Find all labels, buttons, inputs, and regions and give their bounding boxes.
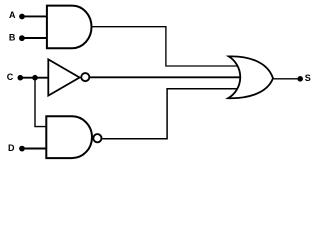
node C terminal dot (18, 75, 24, 81)
wire C branch down to NAND input (35, 78, 46, 127)
wire NOT output to OR middle input (90, 76, 242, 78)
wire A input (22, 15, 47, 17)
node C junction dot (32, 75, 38, 81)
wire C input (20, 77, 48, 79)
NOT gate (inverter) U2 (48, 59, 79, 95)
NOT gate bubble (81, 73, 89, 81)
node B terminal dot (19, 35, 25, 41)
wire NAND output to OR bottom input (102, 89, 239, 139)
node A terminal dot (19, 14, 25, 20)
svg-text:A: A (9, 10, 16, 20)
node D terminal dot (19, 146, 25, 152)
OR gate U4 (228, 56, 273, 98)
wire B input (22, 37, 47, 39)
wire D input (22, 148, 46, 150)
NAND gate bubble (93, 134, 101, 142)
svg-text:B: B (9, 32, 16, 42)
node S terminal dot (297, 76, 303, 82)
AND gate U1 (47, 6, 92, 49)
NAND gate U3 (46, 116, 92, 158)
wire AND output to OR top input (91, 27, 240, 66)
svg-text:S: S (305, 73, 311, 83)
svg-text:D: D (8, 143, 15, 153)
svg-text:C: C (7, 72, 14, 82)
wire OR output to S (273, 78, 301, 80)
